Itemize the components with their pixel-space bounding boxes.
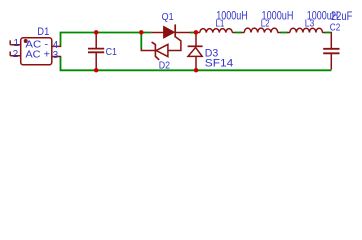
svg-text:SF14: SF14 [205,57,234,69]
svg-text:3: 3 [53,50,59,61]
svg-text:C1: C1 [106,46,118,58]
svg-text:AC +: AC + [25,49,50,60]
svg-text:1000uH: 1000uH [216,8,248,22]
svg-text:22uF: 22uF [331,9,353,23]
svg-text:D2: D2 [159,59,170,71]
svg-text:C2: C2 [330,21,341,33]
svg-text:1000uH: 1000uH [262,8,294,22]
svg-text:1: 1 [14,38,20,49]
svg-text:Q1: Q1 [162,11,174,23]
svg-text:D1: D1 [37,26,49,38]
svg-text:2: 2 [13,49,19,60]
